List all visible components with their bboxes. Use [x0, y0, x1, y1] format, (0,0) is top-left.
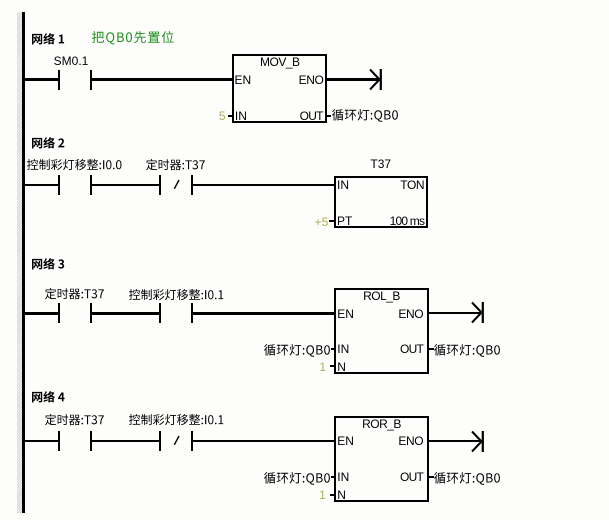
- net3 contact2 left bar: [159, 303, 161, 323]
- net4 open branch arrow: [470, 430, 486, 453]
- net2 NC contact slash: [173, 179, 181, 190]
- ROR_B pin OUT: [378, 471, 424, 483]
- ROL_B instruction box: [334, 288, 429, 375]
- contact SM0.1 right bar: [90, 70, 92, 90]
- MOV_B pin OUT: [277, 110, 323, 122]
- net1 wire contact to MOV_B: [92, 78, 234, 80]
- ROL_B pin OUT: [378, 343, 424, 355]
- MOV_B pin ENO: [277, 74, 324, 86]
- timer T37 title: [334, 158, 429, 170]
- net2 wire rail to contact1: [25, 184, 59, 186]
- net3 OUT operand 循环灯:QB0: [433, 343, 501, 358]
- network 1 header label: [31, 32, 65, 45]
- net3 wire contact2 to ROL_B: [193, 312, 335, 314]
- net4 contact2 NC right bar: [191, 431, 193, 451]
- ROL_B pin EN: [337, 308, 354, 320]
- ROR_B pin EN: [337, 435, 354, 447]
- left margin hatched strip: [17, 12, 23, 513]
- ROL_B pin IN: [337, 343, 349, 355]
- contact SM0.1 left bar: [58, 70, 60, 90]
- net3 tick IN: [331, 348, 336, 350]
- net4 IN operand 循环灯:QB0: [263, 471, 331, 486]
- timer T37 TON box: [334, 176, 429, 228]
- T37 pin PT: [337, 215, 352, 227]
- net4 wire rail to contact1: [25, 440, 59, 442]
- net3 contact1 label 定时器:T37: [44, 287, 105, 300]
- net4 tick OUT: [429, 476, 434, 478]
- net4 tick N: [330, 494, 336, 496]
- net3 wire contact1 to contact2: [92, 312, 160, 314]
- ROL_B title: [334, 290, 429, 302]
- ROL_B pin N: [337, 361, 346, 373]
- net4 wire contact1 to contact2: [92, 440, 160, 442]
- net4 OUT operand 循环灯:QB0: [433, 471, 501, 486]
- network 2 header label: [31, 136, 65, 149]
- net2 contact2 label 定时器:T37: [145, 158, 206, 171]
- net4 contact1 label 定时器:T37: [44, 413, 105, 426]
- net4 contact2 label 控制彩灯移整:I0.1: [128, 413, 224, 426]
- net2 wire contact1 to contact2: [92, 184, 160, 186]
- net3 open branch arrow: [470, 301, 486, 324]
- T37 pin IN: [337, 179, 349, 191]
- net4 contact1 right bar: [90, 431, 92, 451]
- net2 contact2 NC left bar: [159, 175, 161, 195]
- net2 contact1 left bar: [58, 175, 60, 195]
- network 1 comment 把QB0先置位: [91, 30, 175, 45]
- T37 type TON: [380, 179, 424, 191]
- network 4 header label: [31, 390, 66, 403]
- tick OUT to label: [327, 115, 331, 117]
- ROR_B pin N: [337, 489, 346, 501]
- net1 wire ENO to arrow: [327, 78, 378, 80]
- net1 OUT operand 循环灯:QB0: [331, 108, 399, 123]
- net3 contact1 left bar: [58, 303, 60, 323]
- net1 wire rail to contact: [25, 78, 59, 80]
- MOV_B pin IN: [235, 110, 247, 122]
- net4 contact2 NC left bar: [159, 431, 161, 451]
- ROR_B N constant 1: [286, 489, 326, 501]
- net4 wire contact2 to ROR_B: [193, 440, 335, 442]
- net2 contact1 label 控制彩灯移整:I0.0: [26, 158, 123, 171]
- T37 PT constant +5: [288, 216, 328, 228]
- net4 tick IN: [331, 476, 336, 478]
- net3 contact1 right bar: [90, 303, 92, 323]
- ROR_B pin IN: [337, 471, 349, 483]
- net3 contact2 right bar: [191, 303, 193, 323]
- ROL_B N constant 1: [286, 361, 326, 373]
- net3 contact2 label 控制彩灯移整:I0.1: [128, 288, 224, 301]
- ROR_B title: [334, 418, 429, 430]
- ROR_B instruction box: [334, 416, 429, 503]
- net4 NC contact slash: [173, 435, 181, 446]
- MOV_B IN constant 5: [186, 110, 226, 122]
- left power rail: [22, 12, 25, 513]
- net1 open branch arrow: [368, 68, 384, 91]
- net2 wire contact2 to T37 box: [193, 184, 334, 186]
- MOV_B pin EN: [235, 74, 252, 86]
- contact SM0.1 label: [46, 55, 96, 67]
- net4 wire ENO to arrow: [429, 440, 480, 442]
- T37 time base 100 ms: [370, 215, 424, 227]
- net3 wire ENO to arrow: [429, 312, 480, 314]
- net3 tick N: [330, 365, 336, 367]
- net3 IN operand 循环灯:QB0: [263, 343, 331, 358]
- net2 contact1 right bar: [90, 175, 92, 195]
- tick +5 to PT: [329, 220, 335, 222]
- net3 wire rail to contact1: [25, 312, 59, 314]
- MOV_B title: [232, 56, 327, 68]
- net4 contact1 left bar: [58, 431, 60, 451]
- net2 contact2 NC right bar: [191, 175, 193, 195]
- net3 tick OUT: [429, 348, 434, 350]
- MOV_B instruction box U1: [232, 54, 327, 124]
- network 3 header label: [31, 257, 65, 270]
- ROR_B pin ENO: [378, 435, 424, 447]
- ROL_B pin ENO: [378, 308, 424, 320]
- tick 5 to IN: [228, 115, 234, 117]
